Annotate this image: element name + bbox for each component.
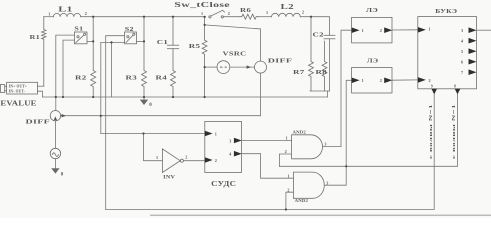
pin 2 triangle U4 BUKE: [418, 77, 426, 83]
svg-text:S2: S2: [125, 27, 134, 33]
wire R6 to L2: [259, 16, 272, 18]
junction S2 right: [143, 40, 145, 42]
resistor R2: [91, 17, 96, 97]
junction R5 top rail: [204, 16, 206, 18]
junction R2 top rail: [92, 16, 94, 18]
junction VSRC left: [204, 66, 206, 68]
block DIFF (circle): [255, 61, 267, 73]
svg-text:DIFF: DIFF: [268, 57, 293, 64]
svg-text:C1: C1: [157, 39, 168, 46]
wire AND2 pin2 feed: [286, 192, 294, 209]
wire AND2 output up to LE2: [324, 80, 351, 185]
wire source to ground: [54, 159, 56, 169]
pin 8 triangle U4 BUKE bottom: [455, 89, 461, 95]
pin 1 triangle U2 LE1: [352, 27, 360, 33]
ground symbol 0 main: [143, 97, 145, 100]
wire S1 left B: [63, 40, 74, 97]
block SUDS: [205, 121, 242, 172]
switch Sw_tClose: [209, 10, 225, 18]
wire VSRC to DIFF arrow: [230, 66, 255, 68]
inductor L2: [272, 13, 301, 16]
svg-text:3: 3: [229, 138, 231, 143]
svg-text:3: 3: [324, 141, 326, 146]
gate AND1: [292, 135, 323, 159]
svg-text:EVALUE: EVALUE: [0, 100, 36, 108]
source VSRC: [217, 61, 230, 74]
pin 3 triangle U1 SUDS: [234, 138, 242, 144]
svg-text:L1: L1: [58, 6, 73, 13]
wire AND1 output up to LE1: [323, 30, 352, 146]
svg-text:IN- OUT-: IN- OUT-: [9, 90, 26, 94]
svg-text:2: 2: [185, 155, 187, 160]
wire LE2 out to BUKE pin2: [392, 79, 418, 81]
junction INV branch: [142, 132, 144, 134]
resistor R4 with C1 line: [171, 17, 176, 97]
junction R4 top rail: [172, 16, 174, 18]
svg-text:R7: R7: [293, 69, 305, 76]
svg-text:2: 2: [380, 28, 382, 33]
junction rail DIFF2 top: [55, 96, 57, 98]
block EVALUE: [0, 82, 37, 94]
wire DIFF bottom crossing rail: [259, 73, 261, 116]
junction rail R5: [204, 96, 206, 98]
junction R7 top rail: [310, 16, 312, 18]
wire DIFF2 output long: [61, 115, 261, 117]
svg-text:1: 1: [362, 78, 364, 83]
wire C2 to rail2: [329, 39, 331, 91]
svg-text:4: 4: [461, 39, 464, 44]
wire bottom long line: [106, 94, 435, 209]
svg-text:DIFF: DIFF: [26, 118, 51, 125]
pin 9 triangle U4 BUKE bottom: [431, 89, 437, 95]
junction R3 top rail: [143, 16, 145, 18]
junction AND2 pin2 bottom line: [285, 208, 287, 210]
pin 2 triangle U3 LE2: [384, 78, 392, 84]
svg-text:2: 2: [380, 78, 382, 83]
svg-text:ЛЭ: ЛЭ: [367, 58, 379, 65]
pin 1 triangle U1 SUDS: [205, 131, 213, 137]
resistor R5: [202, 17, 207, 97]
block LE1: [352, 17, 392, 43]
svg-text:0: 0: [149, 103, 152, 108]
svg-text:3: 3: [326, 181, 328, 186]
junction S2 stub: [110, 41, 112, 43]
svg-text:2: 2: [215, 158, 217, 163]
node EVALUE OUT- stub: [38, 91, 43, 97]
svg-text:INV: INV: [163, 174, 175, 180]
inverter INV: [162, 149, 183, 173]
junction DIFF2 out: [100, 115, 102, 117]
wire top rail L1 to switch: [81, 16, 206, 18]
junction rail R4: [172, 96, 174, 98]
svg-text:2: 2: [228, 11, 230, 16]
junction AND2 out latch line: [345, 165, 347, 167]
svg-text:AND2: AND2: [293, 129, 307, 134]
block LE2: [352, 68, 392, 94]
wire long latch line: [279, 94, 457, 166]
resistor R8: [322, 41, 327, 91]
pin 1 triangle U4 BUKE: [418, 27, 426, 33]
svg-text:Sw_tClose: Sw_tClose: [174, 2, 230, 9]
svg-text:4: 4: [229, 152, 232, 157]
svg-text:VSRC: VSRC: [223, 50, 247, 57]
svg-text:8: 8: [454, 84, 456, 88]
svg-text:1: 1: [429, 26, 431, 31]
svg-text:ЛЭ: ЛЭ: [366, 7, 379, 14]
resistor R3: [142, 17, 147, 97]
svg-text:1: 1: [362, 28, 364, 33]
svg-text:1: 1: [287, 173, 289, 178]
wire SUDS pin3 to AND1 pin1: [242, 139, 292, 141]
svg-text:БУКЭ: БУКЭ: [435, 8, 457, 15]
svg-text:2: 2: [287, 187, 289, 192]
pin 2 triangle U2 LE1: [384, 27, 392, 33]
resistor R6: [240, 14, 259, 19]
svg-text:СУДС: СУДС: [211, 181, 236, 188]
switch S1 box: [74, 32, 87, 44]
junction rail R2: [92, 96, 94, 98]
svg-text:1: 1: [286, 136, 288, 141]
node EVALUE OUT+ stub: [38, 85, 44, 87]
svg-text:R3: R3: [126, 74, 138, 81]
svg-text:2: 2: [429, 78, 431, 83]
svg-text:R5: R5: [189, 43, 201, 50]
svg-text:R8: R8: [316, 69, 328, 76]
svg-text:3: 3: [461, 28, 463, 33]
wire top rail right end, corner down to C2: [300, 17, 329, 36]
wire rail2 to main rail: [327, 91, 329, 97]
wire node to DIFF top and R7: [205, 25, 261, 29]
svg-text:1: 1: [201, 11, 203, 16]
pin 4 triangle U4 BUKE: [469, 38, 477, 44]
resistor R7: [309, 17, 314, 91]
capacitor C1: [167, 45, 178, 49]
wire AND1 pin2 feed: [279, 154, 291, 166]
svg-text:0: 0: [61, 172, 64, 177]
wire INV out to SUDS pin2: [183, 160, 204, 162]
svg-text:C2: C2: [313, 31, 324, 38]
gate AND2: [293, 172, 324, 198]
pin 1 triangle U3 LE2: [352, 78, 360, 84]
bottom scan edge: [150, 215, 491, 216]
junction S1 right: [92, 40, 94, 42]
svg-text:с волны N=1: с волны N=1: [452, 104, 456, 159]
wire switch to R6: [223, 16, 239, 18]
svg-text:AND2: AND2: [295, 198, 309, 203]
svg-text:6: 6: [461, 60, 463, 65]
svg-text:S1: S1: [74, 27, 83, 33]
wire top rail left segment: [44, 16, 54, 18]
wire main ground rail: [43, 96, 328, 98]
svg-text:R1: R1: [30, 34, 41, 41]
junction R5 DIFF branch: [204, 24, 206, 26]
junction rail R3 ground: [143, 96, 145, 98]
wire BUKE pin3 out to edge: [477, 29, 491, 31]
svg-text:1: 1: [266, 10, 268, 15]
wire S1 left A: [56, 35, 75, 111]
source sine circle: [50, 148, 60, 158]
svg-text:2: 2: [85, 11, 87, 16]
svg-text:1: 1: [215, 131, 217, 136]
wire SUDS pin4 to AND2 pin1: [242, 154, 294, 179]
pin 2 triangle U1 SUDS: [205, 157, 213, 163]
switch S2 box: [125, 32, 137, 44]
pin 3 triangle U4 BUKE: [469, 27, 477, 33]
junction rail S1 ctrl: [62, 96, 64, 98]
svg-text:7: 7: [461, 70, 463, 75]
wire VSRC left: [205, 66, 217, 68]
wire INV input branch: [144, 134, 163, 161]
pin 7 triangle U4 BUKE: [469, 69, 477, 75]
svg-text:L2: L2: [281, 4, 295, 11]
svg-text:IN+ OUT+: IN+ OUT+: [9, 85, 27, 89]
svg-text:5: 5: [461, 49, 463, 54]
wire SUDS pin1 feed: [101, 133, 205, 135]
svg-text:2: 2: [302, 10, 304, 15]
wire DIFF1 top drop: [259, 29, 261, 61]
resistor R1: [42, 17, 46, 87]
wire S2 left A: [106, 36, 125, 210]
svg-text:R2: R2: [75, 74, 87, 81]
inductor L1: [53, 13, 80, 16]
ground symbol 0 lower: [51, 168, 59, 173]
wire LE1 out to BUKE pin1: [392, 29, 418, 31]
block DIFF2 circle: [50, 111, 60, 121]
svg-text:R4: R4: [156, 74, 168, 81]
svg-text:1: 1: [156, 155, 158, 160]
pin 5 triangle U4 BUKE: [469, 48, 477, 54]
wire S1 right to R2 line: [87, 40, 93, 42]
wire DIFF2 to source: [54, 121, 56, 148]
svg-text:1: 1: [48, 11, 50, 16]
svg-text:2: 2: [285, 149, 287, 154]
wire stub vertical at 113: [111, 42, 113, 97]
capacitor C2: [324, 35, 335, 39]
block BUKE: [418, 17, 477, 89]
wire S2 left B: [101, 42, 125, 133]
svg-text:с волны N=1: с волны N=1: [429, 104, 433, 159]
pin 4 triangle U1 SUDS: [234, 151, 242, 157]
svg-text:R6: R6: [240, 7, 252, 14]
pin 6 triangle U4 BUKE: [469, 59, 477, 65]
wire S2 right to R3 line: [137, 40, 145, 42]
wire rail2 R7/R8 bottoms: [310, 90, 330, 92]
svg-text:9: 9: [431, 84, 433, 88]
